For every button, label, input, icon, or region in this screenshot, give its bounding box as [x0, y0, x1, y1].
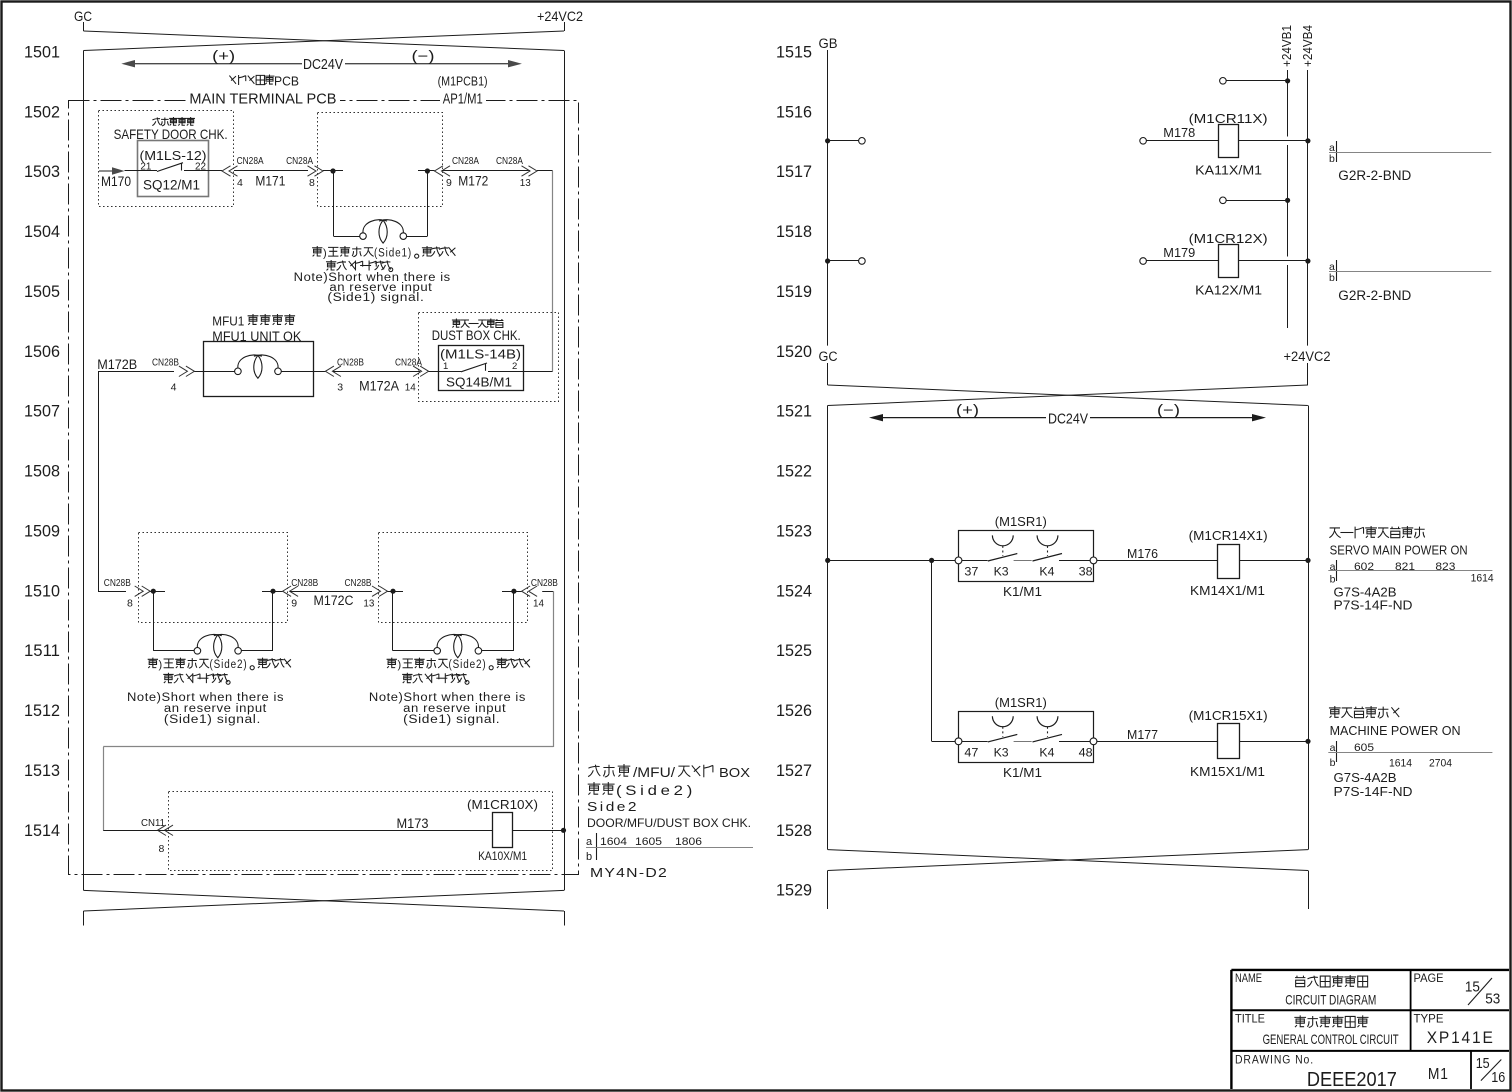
svg-text:1516: 1516	[776, 103, 812, 121]
svg-text:38: 38	[1079, 566, 1093, 578]
svg-text:SQ14B/M1: SQ14B/M1	[446, 376, 512, 390]
svg-text:1: 1	[443, 361, 448, 372]
svg-text:9: 9	[291, 598, 297, 610]
svg-text:G2R-2-BND: G2R-2-BND	[1338, 168, 1411, 183]
svg-text:K4: K4	[1039, 566, 1055, 578]
side2 annotation japanese line2	[588, 782, 615, 795]
gray drop wire 1503 to 1506	[552, 171, 554, 371]
contact K4	[1033, 535, 1063, 561]
label main terminal pcb japanese	[229, 75, 274, 85]
svg-text:M172C: M172C	[314, 593, 354, 608]
svg-text:4: 4	[171, 382, 177, 394]
svg-text:(M1SR1): (M1SR1)	[995, 515, 1047, 529]
junction dot node B	[418, 170, 435, 172]
svg-text:1514: 1514	[24, 822, 60, 840]
svg-text:+24VB1: +24VB1	[1280, 25, 1294, 67]
svg-text:1508: 1508	[24, 463, 60, 481]
relay KA12X coil row	[1140, 258, 1147, 265]
svg-text:14: 14	[405, 382, 416, 394]
jumper side2 right drops	[392, 591, 394, 651]
MFU1 connector box	[204, 342, 314, 397]
svg-text:PCB: PCB	[274, 74, 299, 89]
machine power annotation japanese	[1329, 706, 1399, 718]
svg-text:14: 14	[533, 598, 544, 610]
connector CN28A pin 14 chevrons	[413, 366, 429, 376]
svg-text:(Side2): (Side2)	[616, 783, 696, 798]
svg-text:602: 602	[1354, 561, 1374, 573]
svg-text:M170: M170	[101, 174, 131, 189]
svg-text:(−): (−)	[1157, 403, 1180, 419]
relay KA12X row: left contact	[825, 258, 830, 263]
svg-text:XP141E: XP141E	[1427, 1028, 1495, 1047]
connector CN28B pin 3 chevrons	[325, 366, 341, 376]
svg-text:P7S-14F-ND: P7S-14F-ND	[1334, 785, 1413, 799]
svg-text:821: 821	[1395, 561, 1415, 573]
wire out of MFU1 box	[281, 371, 325, 373]
svg-text:+24VC2: +24VC2	[537, 8, 583, 24]
svg-text:DC24V: DC24V	[303, 56, 343, 73]
svg-text:G2R-2-BND: G2R-2-BND	[1338, 288, 1411, 303]
svg-text:KA11X/M1: KA11X/M1	[1195, 164, 1262, 178]
svg-text:15: 15	[1476, 1056, 1490, 1072]
svg-text:1520: 1520	[776, 343, 812, 361]
shorting plug jumper side2 left	[194, 634, 241, 657]
svg-text:1523: 1523	[776, 523, 812, 541]
relay KA11X row: left contact	[825, 138, 830, 143]
wire M176	[1097, 560, 1218, 562]
svg-text:CN28B: CN28B	[345, 578, 372, 589]
label safety door chk japanese	[152, 117, 195, 126]
note japanese side2-left line2	[163, 673, 184, 683]
wire M177	[1097, 741, 1218, 743]
left margin line numbers 1501-1514	[24, 44, 60, 840]
junction dot E	[388, 591, 404, 593]
svg-text:KM14X1/M1: KM14X1/M1	[1190, 584, 1265, 598]
label dust box japanese	[452, 319, 504, 328]
wire M173	[103, 830, 492, 832]
note japanese side1 line1	[312, 246, 322, 256]
svg-text:AP1/M1: AP1/M1	[443, 92, 483, 108]
svg-text:1522: 1522	[776, 463, 812, 481]
svg-text:BOX: BOX	[719, 765, 750, 780]
svg-text:(Side2): (Side2)	[449, 659, 487, 671]
svg-text:1510: 1510	[24, 582, 60, 600]
relay coil KA10X/M1 box	[493, 813, 513, 848]
title block frame	[1231, 970, 1509, 1089]
svg-text:1604: 1604	[600, 836, 627, 848]
svg-text:G7S-4A2B: G7S-4A2B	[1334, 586, 1397, 600]
dotted box door/mfu/dust relay	[169, 792, 553, 871]
title block general control circuit japanese	[1294, 1015, 1368, 1027]
right margin line numbers 1515-1529	[776, 44, 812, 900]
svg-text:Side2: Side2	[587, 800, 639, 814]
junction dot D	[262, 591, 283, 593]
dotted box safety door chk	[99, 111, 234, 207]
svg-text:(Side1) signal.: (Side1) signal.	[403, 714, 500, 726]
row A terminal circle and wire	[1220, 78, 1227, 85]
svg-text:1503: 1503	[24, 163, 60, 181]
svg-text:/MFU/: /MFU/	[633, 765, 675, 780]
shorting plug jumper side2 right	[434, 634, 482, 657]
left rail section2	[827, 406, 829, 850]
svg-text:): )	[159, 659, 163, 671]
contact box M1SR1 K3/K4	[959, 531, 1094, 582]
page-break between 1520 and 1521	[827, 363, 829, 385]
middle dotted box reserve input side1	[318, 113, 443, 207]
bottom page-break symbol left ladder	[84, 890, 565, 911]
svg-text:CN28B: CN28B	[531, 578, 558, 589]
svg-text:1806: 1806	[675, 836, 702, 848]
rail +24VB1	[1287, 70, 1289, 137]
relay coil KA11X/M1 box	[1219, 125, 1239, 158]
connector CN28B pin 13 chevrons rung1510	[372, 586, 388, 596]
svg-text:1511: 1511	[24, 642, 60, 660]
wire SQ12 to CN28A pin4	[184, 170, 222, 172]
svg-text:(Side2): (Side2)	[210, 659, 248, 671]
svg-text:MY4N-D2: MY4N-D2	[590, 866, 668, 880]
svg-text:b: b	[1329, 272, 1335, 284]
svg-text:1517: 1517	[776, 163, 812, 181]
wire SQ14B to corner	[488, 371, 553, 373]
contact K3	[988, 716, 1018, 742]
svg-text:b: b	[1330, 757, 1336, 769]
relay coil KA12X/M1 box	[1219, 245, 1239, 278]
svg-text:SQ12/M1: SQ12/M1	[143, 178, 200, 193]
svg-text:NAME: NAME	[1235, 973, 1262, 985]
svg-text:1528: 1528	[776, 822, 812, 840]
rail +24VB4	[1307, 70, 1309, 346]
svg-text:GC: GC	[819, 349, 838, 364]
svg-text:M178: M178	[1163, 126, 1195, 140]
wire coil KA12X to +24VB4	[1239, 260, 1308, 262]
svg-text:1527: 1527	[776, 762, 812, 780]
svg-text:1518: 1518	[776, 223, 812, 241]
svg-text:(M1SR1): (M1SR1)	[995, 696, 1047, 710]
svg-text:GB: GB	[819, 36, 838, 51]
connector CN11 pin 8 chevrons	[158, 825, 174, 835]
contact K4	[1033, 716, 1063, 742]
jumper side2 left wire	[153, 650, 194, 652]
svg-text:DUST BOX CHK.: DUST BOX CHK.	[432, 328, 521, 343]
relay coil KM14X1/M1 box	[1218, 545, 1240, 579]
junction dot node A	[323, 170, 343, 172]
svg-text:+24VC2: +24VC2	[1284, 349, 1331, 364]
junction dot C	[150, 591, 165, 593]
svg-text:1519: 1519	[776, 283, 812, 301]
jumper side2 right wire	[393, 650, 434, 652]
svg-text:(M1CR14X1): (M1CR14X1)	[1189, 529, 1268, 543]
svg-text:8: 8	[127, 598, 133, 610]
dotted box reserve input side2 left	[139, 533, 288, 623]
svg-text:(Side1) signal.: (Side1) signal.	[164, 714, 261, 726]
svg-text:DRAWING No.: DRAWING No.	[1235, 1054, 1314, 1066]
svg-text:M173: M173	[397, 816, 429, 831]
side2 annotation japanese line1	[588, 764, 630, 777]
connector CN28A pin 8 chevrons	[308, 166, 324, 176]
reserve input side1 jumper wire	[334, 236, 360, 238]
svg-text:K1/M1: K1/M1	[1003, 766, 1042, 780]
svg-text:1525: 1525	[776, 642, 812, 660]
branch wire to rung2	[931, 560, 933, 741]
svg-text:8: 8	[159, 843, 165, 855]
svg-text:K1/M1: K1/M1	[1003, 585, 1042, 599]
svg-text:a: a	[1330, 561, 1336, 573]
svg-text:KA10X/M1: KA10X/M1	[478, 851, 527, 863]
note japanese side2-left line1	[148, 658, 158, 668]
svg-text:13: 13	[520, 177, 531, 189]
svg-text:1506: 1506	[24, 343, 60, 361]
svg-text:G7S-4A2B: G7S-4A2B	[1334, 771, 1397, 785]
svg-text:CN28A: CN28A	[496, 156, 523, 167]
wire into SQ12	[125, 170, 158, 172]
svg-text:GC: GC	[74, 8, 92, 24]
dotted box reserve input side2 right	[379, 533, 528, 623]
title block circuit diagram japanese	[1295, 975, 1368, 987]
svg-text:MFU1: MFU1	[212, 315, 244, 329]
wire M170 entry arrow	[99, 167, 125, 174]
svg-text:K3: K3	[994, 747, 1009, 759]
contact ref rule	[586, 847, 753, 849]
wire M172C	[290, 591, 372, 593]
DC24V polarity arrow	[121, 60, 522, 67]
svg-text:CN28A: CN28A	[395, 358, 422, 369]
wire rung1503 to drop	[537, 170, 553, 172]
svg-text:CN28A: CN28A	[286, 156, 313, 167]
svg-text:KA12X/M1: KA12X/M1	[1195, 284, 1262, 298]
svg-text:13: 13	[363, 598, 374, 610]
svg-text:1509: 1509	[24, 523, 60, 541]
connector CN28A pin 13 chevrons	[522, 166, 538, 176]
svg-text:K4: K4	[1039, 747, 1055, 759]
svg-text:(Side1) signal.: (Side1) signal.	[327, 292, 424, 304]
svg-text:1526: 1526	[776, 702, 812, 720]
wire M172B corner	[98, 371, 174, 373]
rail GB	[827, 50, 829, 346]
left rail GC	[83, 51, 85, 891]
wire coil to rail	[513, 830, 564, 832]
bottom page-break section2	[828, 850, 1308, 871]
svg-text:MACHINE POWER ON: MACHINE POWER ON	[1330, 724, 1461, 738]
svg-text:KM15X1/M1: KM15X1/M1	[1190, 765, 1265, 779]
svg-text:a: a	[586, 836, 593, 848]
svg-text:37: 37	[964, 566, 978, 578]
svg-text:16: 16	[1491, 1070, 1505, 1086]
svg-text:(M1CR11X): (M1CR11X)	[1189, 112, 1268, 126]
svg-text:CN28B: CN28B	[337, 358, 364, 369]
svg-text:1524: 1524	[776, 582, 812, 600]
note japanese side2-right line2	[402, 673, 423, 683]
dotted box dust box chk	[419, 313, 559, 402]
svg-text:DC24V: DC24V	[1048, 411, 1088, 428]
contact K3	[988, 535, 1018, 561]
svg-text:(M1CR15X1): (M1CR15X1)	[1189, 709, 1268, 723]
right rail +24VC2	[564, 51, 566, 891]
connector CN28A pin 9 chevrons	[435, 166, 451, 176]
svg-text:P7S-14F-ND: P7S-14F-ND	[1334, 599, 1413, 613]
svg-text:K3: K3	[994, 566, 1009, 578]
note japanese side1 line2	[326, 260, 347, 270]
svg-text:b: b	[1330, 574, 1336, 586]
svg-text:1507: 1507	[24, 403, 60, 421]
switch blade SQ14B	[429, 371, 461, 373]
note japanese side2-right line1	[387, 658, 397, 668]
wire coil to right rail rung1	[1240, 560, 1308, 562]
svg-text:1502: 1502	[24, 103, 60, 121]
shorting plug jumper MFU1	[235, 355, 282, 378]
svg-text:47: 47	[964, 747, 978, 759]
svg-text:(Side1): (Side1)	[374, 248, 412, 260]
svg-text:MAIN TERMINAL PCB: MAIN TERMINAL PCB	[189, 92, 336, 108]
svg-text:CN28A: CN28A	[452, 156, 479, 167]
wire rung1510 to drop	[542, 591, 553, 593]
svg-text:48: 48	[1079, 747, 1093, 759]
relay KA11X coil row	[1140, 138, 1147, 145]
svg-text:605: 605	[1354, 742, 1374, 754]
svg-text:M1: M1	[1428, 1066, 1449, 1083]
DC24V polarity arrow section2	[869, 414, 1266, 421]
svg-text:1504: 1504	[24, 223, 60, 241]
svg-text:CN28B: CN28B	[104, 578, 131, 589]
svg-text:8: 8	[309, 177, 315, 189]
wire M172A	[333, 371, 420, 373]
svg-text:1529: 1529	[776, 882, 812, 900]
svg-text:GENERAL CONTROL CIRCUIT: GENERAL CONTROL CIRCUIT	[1263, 1031, 1399, 1047]
svg-text:(+): (+)	[212, 49, 235, 65]
svg-text:1521: 1521	[776, 403, 812, 421]
right rail section2	[1308, 406, 1310, 850]
svg-text:M171: M171	[255, 173, 285, 188]
svg-text:M172A: M172A	[359, 379, 399, 394]
top page-break symbol left ladder	[83, 22, 85, 31]
svg-text:(M1LS-14B): (M1LS-14B)	[440, 348, 521, 362]
svg-text:3: 3	[337, 382, 343, 394]
wire coil KA11X to +24VB4	[1239, 140, 1308, 142]
junction dot branch	[929, 558, 934, 563]
wire into MFU1 box	[194, 371, 234, 373]
svg-text:CN28B: CN28B	[291, 578, 318, 589]
svg-text:1515: 1515	[776, 44, 812, 62]
svg-text:1513: 1513	[24, 762, 60, 780]
connector CN28B pin 14 chevrons rung1510	[522, 586, 538, 596]
svg-text:15: 15	[1465, 979, 1480, 996]
svg-text:2: 2	[512, 361, 517, 372]
wire M171	[234, 170, 308, 172]
svg-text:1501: 1501	[24, 44, 60, 62]
wire M172	[442, 170, 530, 172]
svg-text:SAFETY DOOR CHK.: SAFETY DOOR CHK.	[114, 126, 228, 142]
label AP1/M1	[440, 92, 486, 105]
relay coil KM15X1/M1 box	[1218, 724, 1240, 759]
svg-text:CIRCUIT DIAGRAM: CIRCUIT DIAGRAM	[1285, 992, 1376, 1008]
svg-text:DOOR/MFU/DUST BOX CHK.: DOOR/MFU/DUST BOX CHK.	[587, 816, 751, 830]
wire coil to right rail rung2	[1240, 741, 1308, 743]
svg-text:(M1PCB1): (M1PCB1)	[438, 74, 488, 89]
svg-text:9: 9	[446, 177, 452, 189]
svg-text:(−): (−)	[412, 49, 435, 65]
connector CN28B pin 9 chevrons rung1510	[283, 586, 299, 596]
svg-text:b: b	[1329, 153, 1335, 165]
svg-text:(M1CR12X): (M1CR12X)	[1189, 232, 1268, 246]
svg-text:SERVO MAIN POWER ON: SERVO MAIN POWER ON	[1330, 544, 1468, 558]
svg-text:1605: 1605	[635, 836, 662, 848]
reserve input side1 jumper drop wires	[333, 171, 335, 236]
wire rail to contact box1	[828, 560, 959, 562]
svg-text:(+): (+)	[956, 403, 979, 419]
svg-text:b: b	[586, 851, 592, 863]
contact box M1SR1 K3/K4	[959, 712, 1094, 763]
svg-text:1512: 1512	[24, 702, 60, 720]
svg-text:PAGE: PAGE	[1414, 973, 1444, 985]
svg-text:TYPE: TYPE	[1414, 1014, 1444, 1026]
svg-text:): )	[398, 659, 402, 671]
svg-text:TITLE: TITLE	[1235, 1014, 1265, 1026]
limit switch SQ12/M1 box	[138, 141, 209, 197]
svg-text:M176: M176	[1127, 547, 1158, 561]
svg-text:CN28A: CN28A	[237, 156, 264, 167]
row C terminal circle and wire	[1220, 197, 1227, 204]
label MAIN TERMINAL PCB	[186, 92, 340, 105]
svg-text:1614: 1614	[1471, 573, 1494, 585]
shorting plug jumper side1	[360, 220, 407, 243]
PCB boundary dash-dot box AP1/M1	[69, 101, 579, 875]
svg-text:): )	[323, 248, 327, 260]
svg-text:M172B: M172B	[97, 357, 137, 372]
junction dot on +24VC2 rail	[561, 828, 566, 833]
junction dot rail rung servo	[825, 558, 830, 563]
svg-text:823: 823	[1435, 561, 1455, 573]
rung 1510 left wire	[98, 591, 126, 593]
jumper side2 left drops	[153, 591, 155, 651]
svg-text:1505: 1505	[24, 283, 60, 301]
svg-text:M172: M172	[458, 173, 488, 188]
svg-text:(M1CR10X): (M1CR10X)	[467, 798, 538, 812]
svg-text:2704: 2704	[1429, 758, 1452, 770]
svg-text:M177: M177	[1127, 728, 1158, 742]
junction dot F	[502, 591, 522, 593]
servo annotation japanese	[1329, 526, 1424, 538]
connector CN28A pin 4 chevrons	[222, 166, 238, 176]
gray return wire 1510 to 1514	[553, 591, 555, 747]
svg-text:CN28B: CN28B	[152, 358, 179, 369]
svg-text:DEEE2017: DEEE2017	[1307, 1069, 1397, 1091]
svg-text:M179: M179	[1163, 246, 1195, 260]
svg-text:4: 4	[237, 177, 243, 189]
svg-text:CN11: CN11	[141, 817, 165, 829]
connector CN28B pin 4 chevrons	[179, 366, 195, 376]
limit switch SQ14B/M1 box	[439, 346, 524, 391]
svg-text:+24VB4: +24VB4	[1301, 25, 1315, 67]
switch blade SQ12	[157, 163, 183, 172]
connector CN28B pin 8 chevrons rung1510	[135, 586, 151, 596]
svg-text:53: 53	[1485, 991, 1500, 1008]
svg-text:1614: 1614	[1389, 758, 1412, 770]
